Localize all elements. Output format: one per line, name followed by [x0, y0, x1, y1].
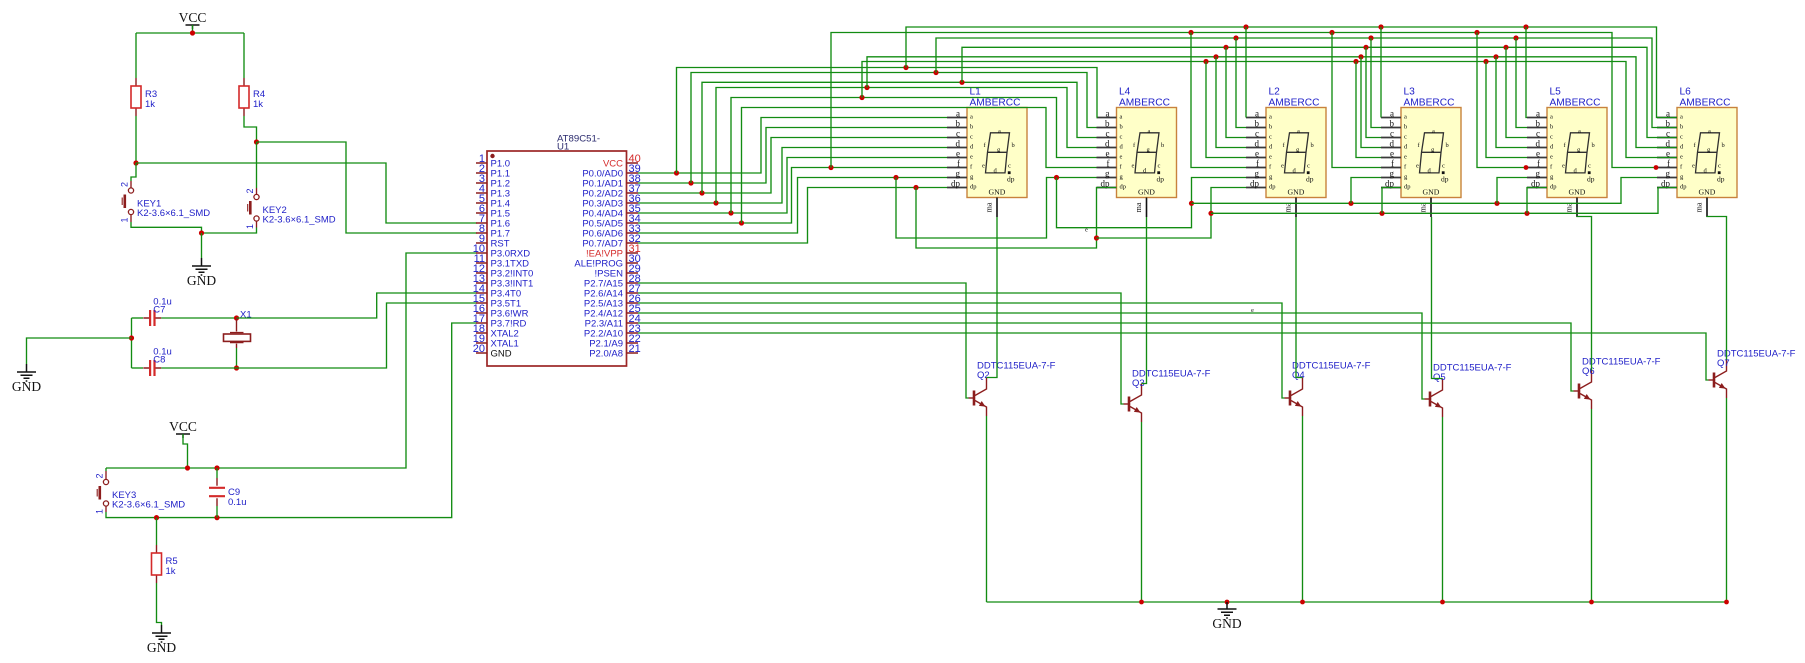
U1 left pin 12 P3.2!INT0 — [473, 263, 534, 280]
L5 pin a stub — [1527, 108, 1553, 120]
L3 common pin ma stub — [1419, 198, 1432, 218]
junction node X1 bottom — [234, 365, 239, 370]
U1 left pin 19 XTAL1 — [473, 333, 519, 350]
wire segment d riser to lower track, run to L4 pin d — [716, 88, 1097, 204]
L1 pin dp stub — [947, 178, 977, 190]
svg-text:a: a — [1550, 114, 1553, 121]
wire VCC to KEY3 rail — [183, 434, 188, 468]
junction R5 on bottom rail — [154, 515, 159, 520]
svg-text:21: 21 — [629, 343, 641, 355]
U1 left pin 18 XTAL2 — [473, 323, 519, 340]
svg-text:a: a — [1269, 114, 1272, 121]
U1 left pin 2 P1.1 — [476, 163, 510, 180]
wire net P0 segment a: chip pin to L1 staircase — [638, 118, 947, 174]
svg-text:f: f — [957, 158, 960, 168]
wire R4 to KEY2 node — [244, 116, 257, 142]
svg-text:f: f — [1537, 158, 1540, 168]
wire segment e drop into L2 pin e — [1206, 62, 1246, 158]
wire segment c riser to lower track, run to L4 pin c — [702, 82, 1097, 193]
junction segment c tap for L5 — [1503, 45, 1508, 50]
junction keys ground node — [199, 230, 204, 235]
junction C9 bottom on rail — [214, 515, 219, 520]
L3 internal 7-seg digit glyph — [1416, 128, 1449, 183]
svg-text:AMBERCC: AMBERCC — [1550, 98, 1601, 109]
L4 pin f stub — [1097, 158, 1123, 170]
resistor R3 1k — [135, 78, 137, 116]
L5 internal 7-seg digit glyph — [1562, 128, 1595, 183]
svg-text:b: b — [1722, 142, 1725, 149]
ground GND (crystal caps) — [17, 364, 36, 381]
7-segment display L1 AMBERCC body — [967, 108, 1027, 198]
svg-text:L4: L4 — [1119, 87, 1131, 98]
svg-text:ma: ma — [985, 202, 994, 212]
L1 pin d stub — [947, 138, 974, 150]
svg-text:dp: dp — [1441, 175, 1449, 184]
L4 pin dp stub — [1097, 178, 1127, 190]
wire segment b upper track to L6 pin b — [936, 38, 1677, 128]
svg-text:1k: 1k — [145, 99, 155, 110]
U1 left pin 16 P3.6!WR — [473, 303, 529, 320]
L6 pin a stub — [1657, 108, 1683, 120]
wire segment e drop into L3 pin e — [1356, 62, 1381, 158]
svg-text:d: d — [956, 138, 961, 148]
svg-text:e: e — [982, 163, 985, 170]
L2 common pin ma stub — [1284, 198, 1297, 218]
L2 pin f stub — [1246, 158, 1272, 170]
junction segment b riser tap — [688, 180, 693, 185]
svg-text:c: c — [1550, 134, 1553, 141]
svg-text:dp: dp — [1101, 178, 1111, 188]
U1 right pin 23 P2.2/A10 — [584, 323, 641, 340]
L6 pin f stub — [1657, 158, 1683, 170]
wire net P0 segment b: chip pin to L1 staircase — [638, 128, 947, 184]
wire KEY2 pin2 stub — [256, 188, 258, 194]
capacitor C8 0.1u — [143, 367, 161, 369]
wire L3 ma to Q5 collector — [1432, 217, 1443, 379]
L4 internal 7-seg digit glyph — [1132, 128, 1165, 183]
junction segment d riser tap — [713, 200, 718, 205]
U1 right pin 36 P0.3/AD3 — [582, 193, 640, 210]
wire R3 to KEY1 node — [135, 116, 137, 163]
wire L5 ma to Q6 collector — [1577, 216, 1592, 371]
U1 right pin 34 P0.5/AD5 — [582, 213, 640, 230]
svg-text:c: c — [1404, 134, 1407, 141]
svg-text:c: c — [956, 128, 960, 138]
svg-text:1k: 1k — [253, 99, 263, 110]
L5 pin e stub — [1527, 148, 1553, 160]
svg-text:Q2: Q2 — [977, 370, 990, 381]
svg-text:a: a — [1390, 108, 1394, 118]
svg-text:e: e — [1269, 154, 1272, 161]
svg-text:GND: GND — [989, 187, 1006, 196]
U1 left pin 11 P3.1TXD — [474, 253, 530, 270]
L6 pin c stub — [1657, 128, 1683, 140]
svg-text:a: a — [1148, 128, 1151, 135]
wire X1 node to chip P3.3 pin 14 — [237, 293, 478, 318]
svg-text:dp: dp — [1269, 184, 1276, 191]
L2 pin a stub — [1246, 108, 1272, 120]
svg-text:b: b — [1012, 142, 1015, 149]
L2 pin d stub — [1246, 138, 1273, 150]
junction VCC rail — [190, 30, 195, 35]
junction segment dp tap for L3 — [1379, 211, 1384, 216]
wire ground node down — [201, 233, 203, 258]
svg-text:GND: GND — [1699, 187, 1716, 196]
svg-text:e: e — [1550, 154, 1553, 161]
ground GND (emitter rail) — [1218, 602, 1237, 618]
wire C9 top lead — [216, 468, 218, 478]
U1 right pin 38 P0.1/AD1 — [582, 173, 640, 190]
U1 right pin 24 P2.3/A11 — [585, 313, 641, 330]
svg-text:b: b — [1390, 118, 1395, 128]
svg-text:GND: GND — [1138, 187, 1155, 196]
svg-text:dp: dp — [1717, 175, 1725, 184]
L6 pin e stub — [1657, 148, 1683, 160]
transistor Q3 DDTC115EUA-7-F — [1124, 384, 1142, 423]
junction node X1 top — [234, 315, 239, 320]
L1 internal 7-seg digit glyph — [982, 128, 1015, 183]
junction segment f tap for L2 — [1188, 30, 1193, 35]
svg-text:c: c — [1666, 128, 1670, 138]
L4 pin d stub — [1097, 138, 1124, 150]
wire segment c drop into L5 pin c — [1506, 47, 1527, 137]
wire net P0 segment d: chip pin to L1 staircase — [638, 148, 947, 204]
svg-text:20: 20 — [473, 343, 485, 355]
wire P2.2 pin23 to Q7 base — [638, 333, 1709, 380]
svg-text:d: d — [1536, 138, 1541, 148]
wire R5 to ground — [157, 583, 162, 625]
U1 right pin 26 P2.5/A13 — [584, 293, 641, 310]
wire KEY1 to ground node — [131, 222, 202, 233]
L5 pin dp stub — [1527, 178, 1557, 190]
transistor Q5 DDTC115EUA-7-F — [1425, 379, 1443, 418]
junction segment g branch at L4 — [1054, 175, 1059, 180]
svg-text:e: e — [1281, 163, 1284, 170]
svg-text:c: c — [1588, 163, 1591, 170]
ground GND (keys) — [192, 258, 211, 275]
svg-text:f: f — [1107, 158, 1110, 168]
U1 right pin 27 P2.6/A14 — [584, 283, 641, 300]
svg-text:Q6: Q6 — [1582, 366, 1595, 377]
wire KEY1 pin1 stub — [130, 215, 132, 222]
junction VCC on rail — [185, 465, 190, 470]
wire C7/C8 left junction vertical — [131, 318, 133, 368]
L6 pin d stub — [1657, 138, 1684, 150]
wire VCC stem to rail — [192, 25, 194, 33]
wire net P0 segment e: chip pin to L1 staircase — [638, 158, 947, 214]
svg-text:c: c — [1269, 134, 1272, 141]
svg-text:VCC: VCC — [179, 10, 207, 25]
U1 left pin 13 P3.3!INT1 — [473, 273, 534, 290]
svg-text:c: c — [1120, 134, 1123, 141]
svg-text:2: 2 — [245, 188, 255, 193]
L6 internal 7-seg digit glyph — [1692, 128, 1725, 183]
svg-text:GND: GND — [12, 379, 41, 394]
U1 left pin 6 P1.5 — [476, 203, 510, 220]
svg-text:d: d — [1666, 138, 1671, 148]
svg-text:c: c — [1158, 163, 1161, 170]
svg-text:a: a — [1680, 114, 1683, 121]
U1 left pin 8 P1.7 — [476, 223, 510, 240]
wire KEY3 pin1 stub — [105, 506, 107, 512]
svg-text:e: e — [1536, 148, 1540, 158]
svg-text:P2.0/A8: P2.0/A8 — [589, 349, 623, 360]
junction Q7 emitter on rail — [1724, 600, 1729, 605]
L3 pin d stub — [1381, 138, 1408, 150]
junction segment a riser tap — [674, 170, 679, 175]
U1 right pin 39 P0.0/AD0 — [582, 163, 640, 180]
svg-text:e: e — [1562, 163, 1565, 170]
wire net P0.7 segment dp: chip pin 32 to L1 dp — [638, 188, 947, 244]
junction segment c tap for L2 — [1223, 45, 1228, 50]
svg-text:b: b — [1404, 124, 1407, 131]
wire Q5 emitter to ground rail — [1442, 417, 1444, 602]
wire L4 ma to Q3 collector — [1142, 217, 1147, 384]
L1 pin c stub — [947, 128, 973, 140]
wire segment d upper track to L6 pin d — [867, 57, 1677, 148]
svg-text:GND: GND — [491, 349, 512, 360]
svg-text:GND: GND — [1569, 187, 1586, 196]
wire X1 bottom to C8 row — [236, 348, 238, 368]
junction segment g tap for L5 — [1494, 201, 1499, 206]
svg-text:GND: GND — [1212, 616, 1241, 631]
svg-text:a: a — [1404, 114, 1407, 121]
svg-text:b: b — [1311, 142, 1314, 149]
junction segment e riser tap — [728, 210, 733, 215]
wire segment g under L4 to L2 pin g — [1057, 178, 1247, 228]
junction segment a tap for L5 — [1523, 24, 1528, 29]
svg-text:AMBERCC: AMBERCC — [1269, 98, 1320, 109]
svg-text:e: e — [1085, 227, 1088, 234]
U1 left pin 7 P1.6 — [476, 213, 510, 230]
svg-text:f: f — [1667, 158, 1670, 168]
wire segment a drop into L3 pin a — [1380, 27, 1382, 118]
L2 internal 7-seg digit glyph — [1281, 128, 1314, 183]
7-segment display L6 AMBERCC body — [1677, 108, 1737, 198]
wire segment dp track to L6 pin dp — [1211, 188, 1677, 214]
wire segment d drop into L5 pin d — [1496, 57, 1527, 148]
junction segment g under-track branch — [893, 175, 898, 180]
wire segment d drop into L3 pin d — [1361, 57, 1381, 148]
svg-text:g: g — [1536, 168, 1541, 178]
L1 pin f stub — [947, 158, 973, 170]
wire segment c drop into L2 pin c — [1226, 47, 1246, 137]
U1 left pin 17 P3.7!RD — [473, 313, 527, 330]
junction segment b tap for L3 — [1368, 35, 1373, 40]
L5 pin c stub — [1527, 128, 1553, 140]
L4 common pin ma stub — [1134, 198, 1147, 218]
wire Q4 emitter to ground rail — [1302, 416, 1304, 602]
svg-text:AMBERCC: AMBERCC — [1119, 98, 1170, 109]
7-segment display L2 AMBERCC body — [1266, 108, 1326, 198]
junction L6 pin f wire joint — [1654, 165, 1659, 170]
junction segment g track 203 branch — [1189, 201, 1194, 206]
svg-text:GND: GND — [1288, 187, 1305, 196]
wire node R4 to chip P1.7 pin 8 — [257, 142, 478, 233]
L3 pin e stub — [1381, 148, 1407, 160]
svg-text:e: e — [970, 154, 973, 161]
L6 common pin ma stub — [1695, 198, 1708, 218]
svg-text:f: f — [1256, 158, 1259, 168]
wire junction to ground (left) — [27, 338, 132, 364]
U1 right pin 30 ALE!PROG — [574, 253, 640, 270]
wire P2.4 pin25 to Q5 base — [638, 313, 1425, 399]
svg-text:b: b — [1592, 142, 1595, 149]
transistor Q2 DDTC115EUA-7-F — [969, 378, 987, 417]
svg-text:1: 1 — [95, 509, 105, 514]
L4 pin b stub — [1097, 118, 1123, 130]
junction segment f riser tap — [739, 220, 744, 225]
junction segment a upper branch — [903, 65, 908, 70]
svg-text:Q5: Q5 — [1433, 372, 1446, 383]
junction segment dp track 213 branch — [1208, 211, 1213, 216]
svg-text:dp: dp — [1306, 175, 1314, 184]
U1 left pin 3 P1.2 — [476, 173, 510, 190]
U1 left pin 9 RST — [476, 233, 510, 250]
svg-text:a: a — [1120, 114, 1123, 121]
wire C7 left lead — [132, 317, 144, 319]
wire segment f drop into L3 pin f — [1332, 33, 1381, 168]
junction Q3 emitter on rail — [1139, 600, 1144, 605]
svg-text:c: c — [1442, 163, 1445, 170]
U1 right pin 25 P2.4/A12 — [584, 303, 641, 320]
svg-text:K2-3.6×6.1_SMD: K2-3.6×6.1_SMD — [112, 500, 185, 511]
svg-text:L2: L2 — [1269, 87, 1281, 98]
junction segment f tap for L5 — [1474, 30, 1479, 35]
svg-text:Q7: Q7 — [1717, 358, 1730, 369]
wire segment c drop into L3 pin c — [1366, 47, 1381, 137]
wire Q7 emitter to ground rail — [1726, 398, 1728, 602]
junction segment c tap for L3 — [1363, 45, 1368, 50]
svg-text:a: a — [970, 114, 973, 121]
wire segment c upper track to L6 pin c — [962, 47, 1677, 137]
svg-text:dp: dp — [951, 178, 961, 188]
junction segment e tap for L2 — [1203, 59, 1208, 64]
svg-text:a: a — [1708, 128, 1711, 135]
wire segment f riser to lower track, run to L4 pin f — [742, 108, 1097, 224]
svg-text:1k: 1k — [166, 566, 176, 577]
junction L5 pin f wire joint — [1524, 165, 1529, 170]
svg-text:a: a — [1255, 108, 1259, 118]
wire segment a drop into L2 pin a — [1245, 27, 1247, 118]
junction segment d tap for L3 — [1358, 54, 1363, 59]
L5 common pin ma stub — [1565, 198, 1578, 218]
svg-text:e: e — [1416, 163, 1419, 170]
svg-text:K2-3.6×6.1_SMD: K2-3.6×6.1_SMD — [263, 215, 336, 226]
wire C9 bottom lead — [216, 506, 218, 518]
svg-text:e: e — [1251, 307, 1254, 314]
pushbutton KEY3 K2-3.6x6.1_SMD — [103, 479, 108, 484]
L6 pin dp stub — [1657, 178, 1687, 190]
svg-text:ma: ma — [1695, 202, 1704, 212]
wire emitter ground rail — [987, 601, 1727, 603]
svg-text:b: b — [1550, 124, 1553, 131]
7-segment display L3 AMBERCC body — [1401, 108, 1461, 198]
wire segment dp under L1 to L4 pin dp — [916, 188, 1117, 249]
L2 pin dp stub — [1246, 178, 1276, 190]
U1 left pin 15 P3.5T1 — [473, 293, 521, 310]
svg-text:dp: dp — [1587, 175, 1595, 184]
wire segment g under L1 to L4 pin g — [896, 178, 1097, 239]
junction segment d tap for L2 — [1213, 54, 1218, 59]
pushbutton KEY1 K2-3.6x6.1_SMD — [128, 188, 133, 193]
svg-text:c: c — [1390, 128, 1394, 138]
wire Q2 emitter to ground rail — [986, 416, 988, 602]
crystal X1 — [230, 318, 244, 348]
svg-text:c: c — [1536, 128, 1540, 138]
wire segment f upper track to L6 pin f — [831, 33, 1657, 168]
svg-text:c: c — [1255, 128, 1259, 138]
svg-text:b: b — [1536, 118, 1541, 128]
svg-text:b: b — [1120, 124, 1123, 131]
svg-text:c: c — [1307, 163, 1310, 170]
svg-text:C7: C7 — [153, 305, 165, 316]
L1 pin b stub — [947, 118, 973, 130]
svg-text:AMBERCC: AMBERCC — [1404, 98, 1455, 109]
svg-text:e: e — [1255, 148, 1259, 158]
L5 pin f stub — [1527, 158, 1553, 170]
wire KEY1 pin2 stub — [130, 181, 132, 188]
junction C9 top on rail — [214, 465, 219, 470]
svg-text:dp: dp — [1157, 175, 1165, 184]
wire segment dp under L4 to L2 pin dp — [1097, 188, 1247, 239]
svg-text:dp: dp — [1120, 184, 1127, 191]
junction segment dp tap for L5 — [1524, 211, 1529, 216]
svg-text:0.1u: 0.1u — [228, 497, 247, 508]
svg-text:b: b — [1446, 142, 1449, 149]
wire segment b drop into L2 pin b — [1236, 38, 1246, 128]
junction segment b upper branch — [933, 70, 938, 75]
svg-text:a: a — [1432, 128, 1435, 135]
svg-text:e: e — [1106, 148, 1110, 158]
svg-text:a: a — [998, 128, 1001, 135]
svg-text:dp: dp — [1550, 184, 1557, 191]
U1 right pin 32 P0.7/AD7 — [582, 233, 640, 250]
capacitor C9 0.1u (vertical) — [216, 478, 218, 506]
wire net P0.6 segment g: chip pin 33 to L1 g — [638, 178, 947, 234]
svg-text:f: f — [1391, 158, 1394, 168]
U1 right pin 22 P2.1/A9 — [589, 333, 641, 350]
wire segment d drop into L2 pin d — [1216, 57, 1246, 148]
junction C7/C8 node — [129, 335, 134, 340]
svg-text:b: b — [1255, 118, 1260, 128]
wire segment f drop into L5 pin f — [1477, 33, 1527, 168]
resistor R5 1k — [156, 545, 158, 583]
transistor Q7 DDTC115EUA-7-F — [1709, 360, 1727, 399]
ground GND (R5) — [152, 625, 171, 642]
L3 pin f stub — [1381, 158, 1407, 170]
svg-text:e: e — [1666, 148, 1670, 158]
wire VCC rail to R3 and R4 — [136, 32, 244, 34]
svg-text:a: a — [1666, 108, 1670, 118]
wire Q3 emitter to ground rail — [1141, 422, 1143, 602]
wire rail down to R5 — [156, 518, 158, 545]
7-segment display L5 AMBERCC body — [1547, 108, 1607, 198]
L2 pin e stub — [1246, 148, 1272, 160]
svg-text:U1: U1 — [557, 142, 569, 153]
wire segment b drop into L5 pin b — [1516, 38, 1527, 128]
wire rail down to R3 — [135, 33, 137, 78]
svg-text:e: e — [1390, 148, 1394, 158]
wire P2.6 pin27 to Q3 base — [638, 293, 1124, 404]
wire KEY2 to ground node — [202, 228, 257, 234]
svg-text:c: c — [1008, 163, 1011, 170]
svg-text:dp: dp — [1404, 184, 1411, 191]
IC U1 AT89C51 body — [487, 151, 627, 366]
wire P2.3 pin24 to Q6 base — [638, 323, 1574, 391]
wire Q6 emitter to ground rail — [1591, 409, 1593, 602]
transistor Q6 DDTC115EUA-7-F — [1574, 371, 1592, 410]
